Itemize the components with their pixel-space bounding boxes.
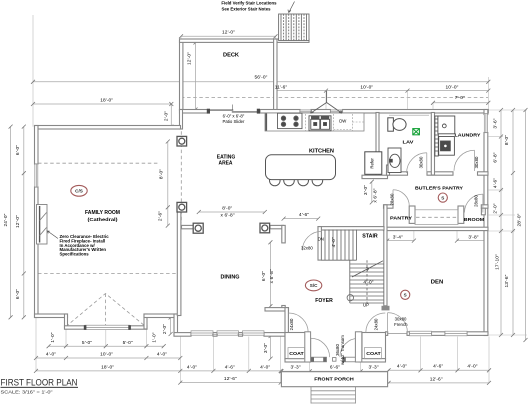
svg-text:DECK: DECK xyxy=(223,53,239,59)
svg-text:FIRST FLOOR PLAN: FIRST FLOOR PLAN xyxy=(1,378,78,388)
svg-text:x 6'-8": x 6'-8" xyxy=(373,188,379,202)
svg-text:6'-0": 6'-0" xyxy=(15,289,21,299)
svg-text:24'-0": 24'-0" xyxy=(3,213,9,226)
svg-text:4'-0": 4'-0" xyxy=(260,364,270,370)
svg-text:11'-6": 11'-6" xyxy=(275,84,288,90)
svg-text:DEN: DEN xyxy=(431,280,444,286)
svg-text:28x80: 28x80 xyxy=(474,195,479,207)
svg-text:LAV: LAV xyxy=(403,140,415,146)
svg-text:4'-0": 4'-0" xyxy=(46,352,56,358)
svg-text:17'-10": 17'-10" xyxy=(495,254,501,270)
svg-text:28'-0": 28'-0" xyxy=(516,213,522,226)
svg-text:56'-0": 56'-0" xyxy=(255,74,268,80)
svg-text:32x80: 32x80 xyxy=(301,246,313,251)
svg-text:UP: UP xyxy=(363,303,369,308)
svg-text:3'-0": 3'-0" xyxy=(263,343,269,353)
svg-text:4'-0": 4'-0" xyxy=(397,364,407,370)
svg-text:5'-0": 5'-0" xyxy=(123,340,133,346)
svg-text:STAIR: STAIR xyxy=(362,234,378,240)
svg-text:28x80: 28x80 xyxy=(390,193,395,205)
svg-text:6'-8": 6'-8" xyxy=(492,152,498,162)
svg-text:2'-0": 2'-0" xyxy=(162,324,168,334)
svg-text:1'-0": 1'-0" xyxy=(152,332,158,342)
svg-text:DINING: DINING xyxy=(221,275,240,281)
svg-text:3'-0": 3'-0" xyxy=(363,185,369,195)
svg-text:(Cathedral): (Cathedral) xyxy=(88,217,118,223)
svg-text:4'-6": 4'-6" xyxy=(225,364,235,370)
svg-text:2'-0": 2'-0" xyxy=(492,203,498,213)
svg-text:3'-3": 3'-3" xyxy=(369,365,379,371)
svg-text:DN: DN xyxy=(318,236,324,241)
svg-text:1'-0": 1'-0" xyxy=(50,332,56,342)
svg-text:2'-6": 2'-6" xyxy=(158,211,164,221)
svg-text:BUTLER'S PANTRY: BUTLER'S PANTRY xyxy=(415,186,464,192)
svg-text:w/ 12" Transom: w/ 12" Transom xyxy=(340,335,345,365)
svg-text:DW: DW xyxy=(339,118,347,123)
svg-text:4'-6": 4'-6" xyxy=(492,178,498,188)
svg-text:30x80: 30x80 xyxy=(474,156,479,168)
svg-text:8'-0": 8'-0" xyxy=(222,206,232,212)
svg-text:18'-0": 18'-0" xyxy=(100,97,113,103)
svg-text:7'-0": 7'-0" xyxy=(455,95,465,101)
svg-text:3'-8": 3'-8" xyxy=(468,235,478,241)
svg-text:4'-0": 4'-0" xyxy=(187,364,197,370)
svg-text:24x80: 24x80 xyxy=(373,318,378,330)
svg-text:LAUNDRY: LAUNDRY xyxy=(455,132,482,138)
svg-text:3'-3": 3'-3" xyxy=(291,365,301,371)
svg-text:Patio Slider: Patio Slider xyxy=(223,119,246,124)
svg-text:C/S: C/S xyxy=(75,189,83,194)
svg-text:x 6'-8": x 6'-8" xyxy=(269,269,275,283)
svg-text:Specifications: Specifications xyxy=(60,252,90,257)
svg-text:4'-6": 4'-6" xyxy=(299,212,309,218)
svg-text:24x80: 24x80 xyxy=(289,318,294,330)
svg-text:12'-6": 12'-6" xyxy=(224,376,237,382)
svg-text:10'-0": 10'-0" xyxy=(100,352,113,358)
svg-text:FOYER: FOYER xyxy=(315,298,333,304)
svg-text:S: S xyxy=(404,293,407,298)
svg-text:12'-0": 12'-0" xyxy=(222,30,235,36)
svg-text:French: French xyxy=(394,322,408,327)
svg-text:30x80: 30x80 xyxy=(419,156,424,168)
svg-text:3'-6": 3'-6" xyxy=(492,118,498,128)
svg-text:FRONT PORCH: FRONT PORCH xyxy=(314,377,354,383)
svg-text:4'-0": 4'-0" xyxy=(157,352,167,358)
svg-text:KITCHEN: KITCHEN xyxy=(309,148,334,154)
svg-text:6'-0": 6'-0" xyxy=(261,271,267,281)
svg-text:12'-0": 12'-0" xyxy=(15,215,21,228)
svg-text:2'-0": 2'-0" xyxy=(164,111,170,121)
svg-text:4'-0": 4'-0" xyxy=(467,364,477,370)
svg-text:5'-0": 5'-0" xyxy=(82,340,92,346)
svg-text:6'-6": 6'-6" xyxy=(330,365,340,371)
svg-text:8'-0": 8'-0" xyxy=(504,135,510,145)
svg-text:4'-0": 4'-0" xyxy=(363,280,373,286)
svg-text:13'-6": 13'-6" xyxy=(504,274,510,287)
svg-text:Field Verify Stair Locations: Field Verify Stair Locations xyxy=(221,0,277,5)
svg-text:36x80: 36x80 xyxy=(335,344,340,356)
svg-text:6'-0": 6'-0" xyxy=(15,145,21,155)
svg-text:x 6'-8": x 6'-8" xyxy=(221,213,235,219)
svg-text:S/C: S/C xyxy=(310,283,318,288)
svg-text:FAMILY ROOM: FAMILY ROOM xyxy=(85,210,120,216)
svg-text:12'-0": 12'-0" xyxy=(186,52,192,65)
svg-text:See Exterior Stair Notes: See Exterior Stair Notes xyxy=(222,6,272,11)
svg-text:30x80: 30x80 xyxy=(395,317,407,322)
svg-text:SCALE: 3/16" = 1'-0": SCALE: 3/16" = 1'-0" xyxy=(1,389,53,394)
svg-text:12'-6": 12'-6" xyxy=(430,376,443,382)
svg-text:4'-6": 4'-6" xyxy=(433,364,443,370)
svg-text:8'-0": 8'-0" xyxy=(158,169,164,179)
svg-text:PANTRY: PANTRY xyxy=(390,215,413,221)
svg-text:BROOM: BROOM xyxy=(464,217,485,223)
svg-text:S: S xyxy=(441,195,444,200)
svg-text:COAT: COAT xyxy=(366,351,381,357)
svg-text:3'-4": 3'-4" xyxy=(393,235,403,241)
svg-text:4'-0": 4'-0" xyxy=(331,237,337,247)
svg-text:Refer: Refer xyxy=(370,157,375,168)
svg-text:18'-0": 18'-0" xyxy=(101,364,114,370)
svg-text:6'-0" x 6'-8": 6'-0" x 6'-8" xyxy=(223,114,245,119)
svg-text:COAT: COAT xyxy=(289,351,304,357)
svg-text:10'-0": 10'-0" xyxy=(360,85,373,91)
svg-text:10'-0": 10'-0" xyxy=(446,85,459,91)
svg-text:AREA: AREA xyxy=(219,161,233,167)
